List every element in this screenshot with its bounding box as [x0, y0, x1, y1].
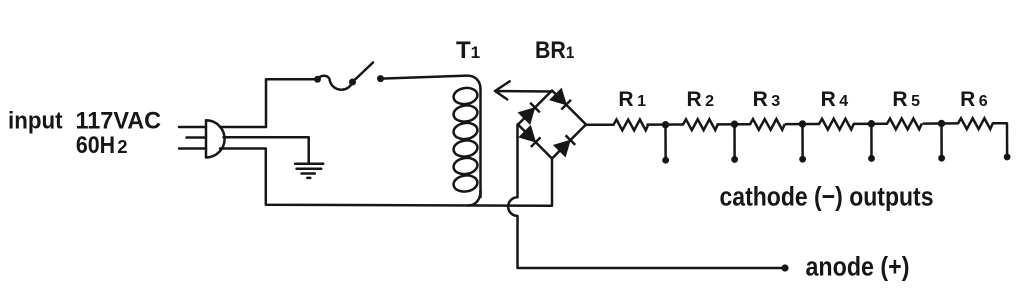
svg-text:117VAC: 117VAC [76, 107, 162, 134]
svg-text:60H: 60H [76, 132, 115, 159]
svg-text:input: input [8, 107, 63, 134]
svg-text:anode (+): anode (+) [806, 252, 910, 282]
svg-text:cathode (−) outputs: cathode (−) outputs [720, 182, 934, 212]
svg-text:2: 2 [117, 136, 127, 157]
